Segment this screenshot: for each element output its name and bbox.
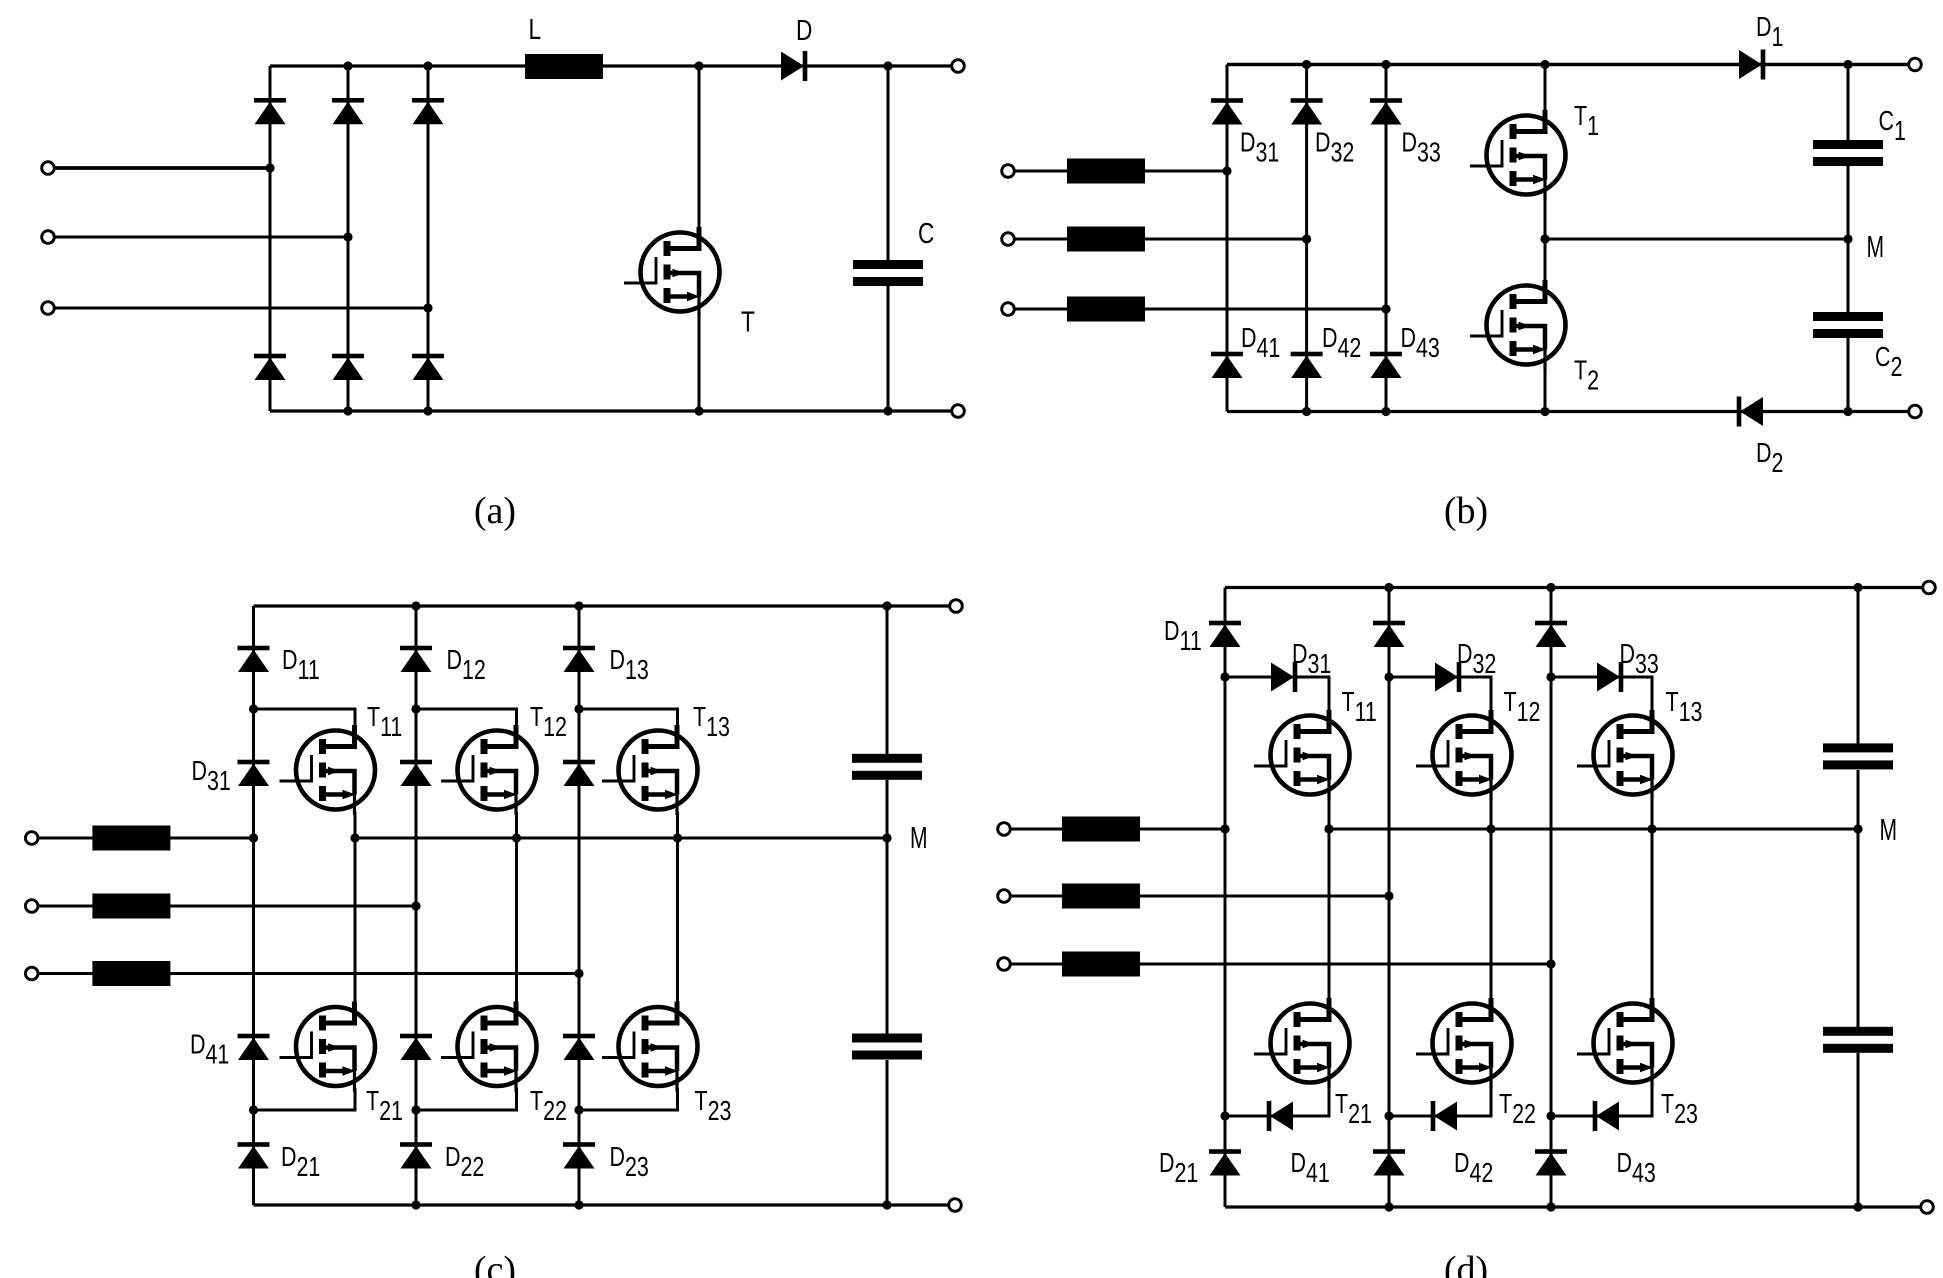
svg-text:D42: D42 bbox=[1322, 324, 1361, 364]
svg-text:D21: D21 bbox=[281, 1143, 320, 1183]
svg-text:C: C bbox=[918, 216, 934, 249]
svg-text:D1: D1 bbox=[1756, 13, 1783, 53]
svg-text:T23: T23 bbox=[1661, 1090, 1698, 1130]
svg-text:D2: D2 bbox=[1756, 439, 1783, 479]
svg-text:T22: T22 bbox=[530, 1087, 567, 1127]
svg-text:T: T bbox=[741, 305, 755, 338]
svg-text:D43: D43 bbox=[1617, 1149, 1656, 1189]
svg-text:D31: D31 bbox=[192, 757, 231, 797]
svg-text:T22: T22 bbox=[1499, 1090, 1536, 1130]
svg-text:M: M bbox=[1880, 812, 1898, 847]
svg-text:D43: D43 bbox=[1401, 324, 1440, 364]
svg-text:D33: D33 bbox=[1620, 640, 1659, 680]
svg-text:T1: T1 bbox=[1574, 102, 1599, 142]
svg-text:D31: D31 bbox=[1240, 128, 1279, 168]
svg-text:M: M bbox=[1867, 229, 1885, 264]
svg-text:D21: D21 bbox=[1159, 1149, 1198, 1189]
svg-text:D32: D32 bbox=[1457, 640, 1496, 680]
svg-text:D41: D41 bbox=[1291, 1149, 1330, 1189]
svg-text:D41: D41 bbox=[190, 1030, 229, 1070]
svg-text:T11: T11 bbox=[1342, 688, 1377, 728]
svg-text:M: M bbox=[910, 820, 928, 855]
svg-text:D12: D12 bbox=[447, 646, 486, 686]
svg-text:T12: T12 bbox=[530, 703, 567, 743]
svg-text:D13: D13 bbox=[610, 646, 649, 686]
svg-text:D: D bbox=[796, 13, 812, 46]
svg-text:D23: D23 bbox=[610, 1143, 649, 1183]
svg-text:T21: T21 bbox=[366, 1087, 403, 1127]
svg-text:L: L bbox=[529, 12, 542, 45]
svg-text:(d): (d) bbox=[1444, 1249, 1488, 1278]
svg-text:D33: D33 bbox=[1402, 128, 1441, 168]
svg-text:D42: D42 bbox=[1454, 1149, 1493, 1189]
svg-text:(b): (b) bbox=[1444, 490, 1488, 532]
svg-text:T2: T2 bbox=[1574, 356, 1599, 396]
svg-text:D22: D22 bbox=[445, 1143, 484, 1183]
svg-text:T12: T12 bbox=[1504, 688, 1541, 728]
svg-text:D31: D31 bbox=[1292, 640, 1331, 680]
svg-text:D11: D11 bbox=[1164, 617, 1202, 657]
svg-text:(a): (a) bbox=[474, 490, 516, 532]
svg-text:T21: T21 bbox=[1335, 1090, 1372, 1130]
svg-text:D32: D32 bbox=[1315, 128, 1354, 168]
svg-text:D41: D41 bbox=[1241, 324, 1280, 364]
svg-text:T23: T23 bbox=[695, 1087, 732, 1127]
svg-text:(c): (c) bbox=[474, 1249, 516, 1278]
svg-text:T13: T13 bbox=[1666, 688, 1703, 728]
svg-text:D11: D11 bbox=[282, 646, 320, 686]
svg-text:T11: T11 bbox=[367, 703, 402, 743]
svg-text:T13: T13 bbox=[693, 703, 730, 743]
svg-text:C2: C2 bbox=[1875, 343, 1902, 383]
